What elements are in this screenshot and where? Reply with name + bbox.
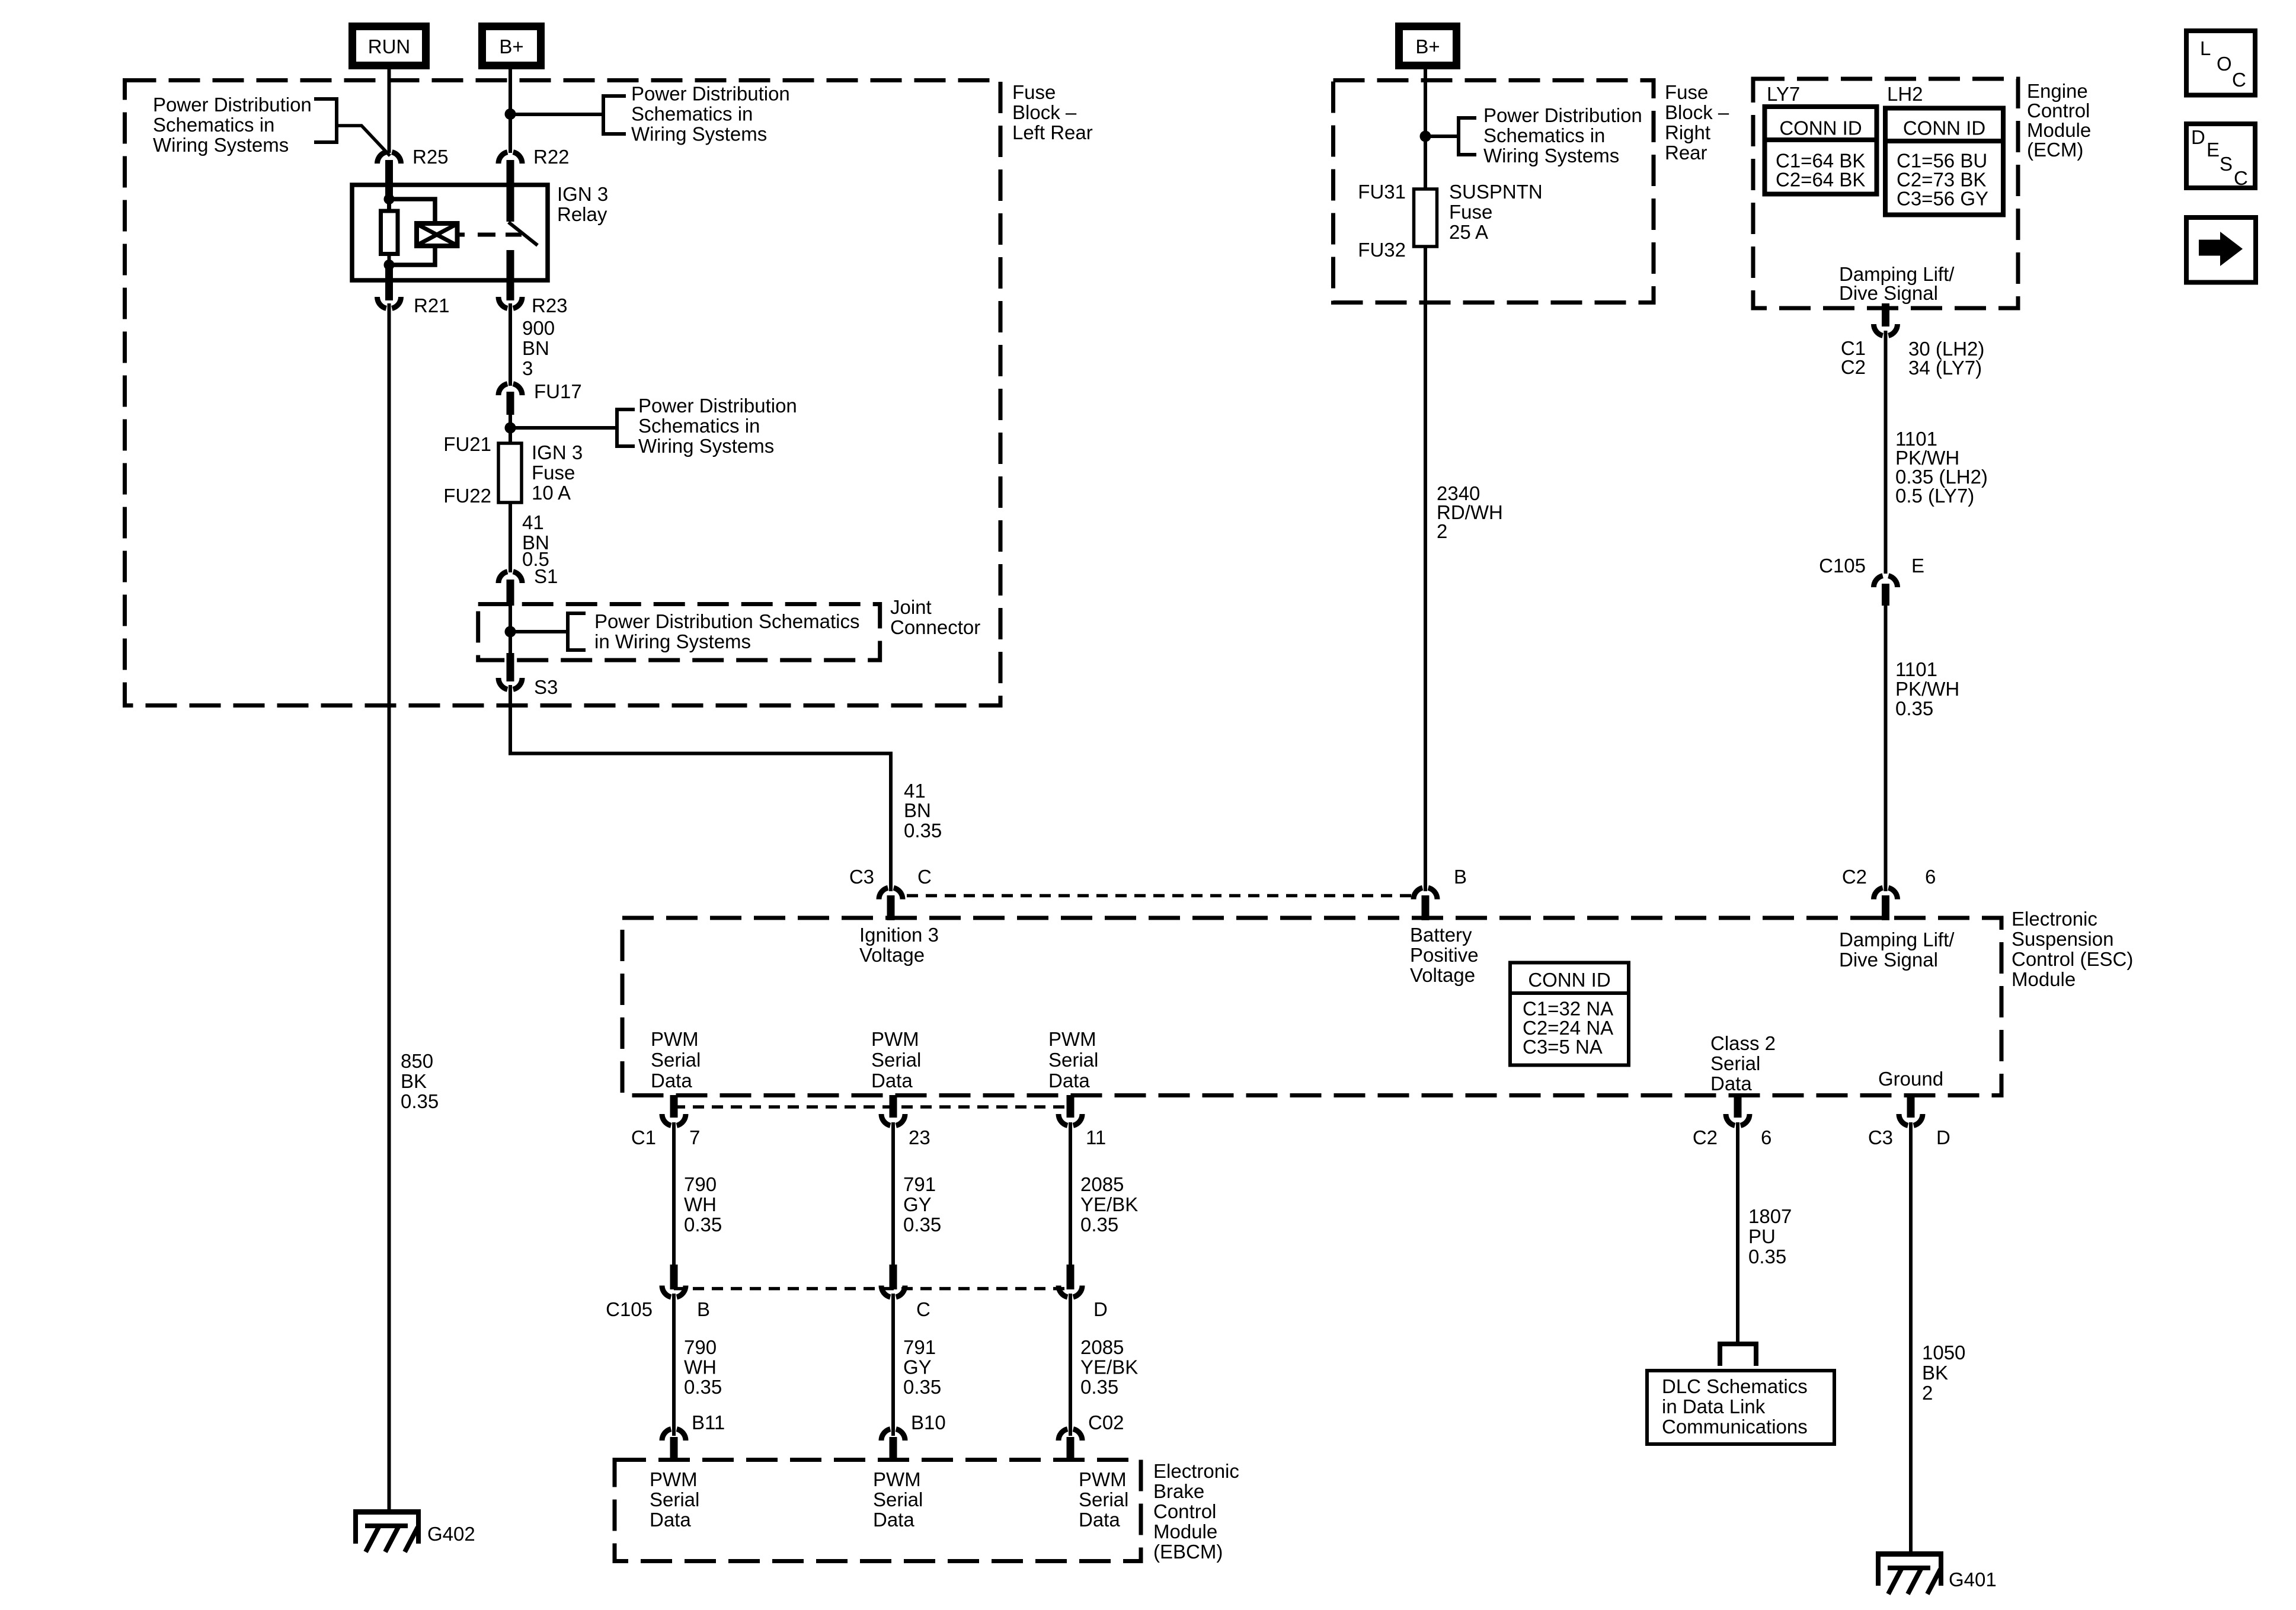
svg-text:B+: B+ <box>1415 36 1440 57</box>
svg-text:1050: 1050 <box>1922 1342 1965 1363</box>
svg-text:25 A: 25 A <box>1449 221 1488 243</box>
wire label 1807 PU 0.35 <box>1748 1205 1792 1267</box>
fuse block - right rear dashed box <box>1334 81 1654 303</box>
svg-text:E: E <box>2207 139 2220 161</box>
terminal RUN <box>353 27 426 66</box>
svg-text:Module: Module <box>2027 119 2091 141</box>
label IGN 3 Fuse 10 A <box>532 441 583 504</box>
connector C105 E <box>1819 555 1924 587</box>
svg-text:Relay: Relay <box>557 203 607 225</box>
connector R25 <box>378 146 449 168</box>
svg-text:YE/BK: YE/BK <box>1080 1193 1138 1215</box>
svg-text:791: 791 <box>903 1173 936 1195</box>
label SUSPNTN Fuse 25 A <box>1449 181 1543 243</box>
svg-text:Battery: Battery <box>1410 924 1472 946</box>
relay IGN 3 box <box>352 185 548 280</box>
svg-text:C2: C2 <box>1693 1126 1718 1148</box>
svg-text:Communications: Communications <box>1662 1416 1808 1438</box>
wire junction to bracket FU17 <box>510 426 617 430</box>
svg-text:0.35: 0.35 <box>1080 1214 1118 1235</box>
pointer text power distribution FU17 <box>638 395 797 457</box>
svg-text:PWM: PWM <box>650 1468 698 1490</box>
svg-text:Voltage: Voltage <box>859 944 925 966</box>
label Ignition 3 Voltage <box>859 924 939 966</box>
svg-text:2: 2 <box>1437 520 1447 542</box>
svg-text:C3: C3 <box>849 866 874 888</box>
svg-text:Serial: Serial <box>1079 1489 1128 1510</box>
svg-text:PU: PU <box>1748 1225 1776 1247</box>
svg-text:FU32: FU32 <box>1358 239 1406 261</box>
svg-text:B10: B10 <box>911 1411 946 1433</box>
connector R22 <box>498 146 570 168</box>
wire label 41 BN 0.35 <box>904 780 942 841</box>
svg-text:BK: BK <box>1922 1362 1948 1384</box>
svg-text:Voltage: Voltage <box>1410 964 1475 986</box>
wire R21 to G402 <box>388 303 391 1512</box>
stub ECM damping output <box>1882 303 1889 327</box>
svg-text:B: B <box>697 1298 710 1320</box>
svg-text:0.35: 0.35 <box>684 1376 722 1398</box>
svg-text:0.35: 0.35 <box>1080 1376 1118 1398</box>
svg-text:Wiring Systems: Wiring Systems <box>153 134 289 156</box>
pointer diagonal to R25 <box>338 126 390 156</box>
wire label 850 BK 0.35 <box>401 1050 439 1112</box>
svg-text:S: S <box>2220 153 2233 175</box>
svg-text:in Wiring Systems: in Wiring Systems <box>594 630 751 652</box>
ESC label Class 2 Serial Data <box>1710 1032 1776 1094</box>
ESC module dashed box <box>622 918 2001 1096</box>
dotted line C105 row <box>674 1287 1070 1291</box>
node FU17 junction <box>505 422 516 434</box>
svg-text:Suspension: Suspension <box>2012 928 2113 950</box>
svg-text:Rear: Rear <box>1665 142 1707 164</box>
wire resistor to bottom node <box>388 254 391 266</box>
svg-text:PWM: PWM <box>1079 1468 1127 1490</box>
node B+ right junction <box>1420 131 1431 142</box>
svg-text:Serial: Serial <box>651 1049 701 1071</box>
svg-text:C02: C02 <box>1088 1411 1124 1433</box>
svg-text:Module: Module <box>1153 1521 1217 1542</box>
svg-text:Schematics in: Schematics in <box>1483 124 1605 146</box>
DLC schematics box <box>1647 1371 1834 1444</box>
svg-text:Serial: Serial <box>1048 1049 1098 1071</box>
svg-text:Electronic: Electronic <box>1153 1460 1239 1482</box>
connector R21 <box>378 295 450 316</box>
svg-text:Ignition 3: Ignition 3 <box>859 924 939 946</box>
LOC legend box <box>2186 31 2255 95</box>
ECM label <box>2027 80 2091 161</box>
svg-text:Data: Data <box>1048 1070 1090 1092</box>
svg-text:3: 3 <box>522 357 533 379</box>
svg-text:0.35: 0.35 <box>401 1090 439 1112</box>
stub R25 into relay <box>385 160 393 200</box>
wire junction to bracket joint <box>510 630 566 633</box>
svg-text:0.35: 0.35 <box>904 820 942 841</box>
EBCM label PWM serial data col1 <box>650 1468 699 1531</box>
svg-text:Wiring Systems: Wiring Systems <box>638 435 774 457</box>
wire ESC col2 to C105 <box>891 1122 895 1265</box>
EBCM label PWM serial data col3 <box>1079 1468 1128 1531</box>
wire RUN to R25 <box>388 69 391 153</box>
stub ESC damping <box>1882 895 1889 920</box>
svg-text:Schematics in: Schematics in <box>631 103 753 125</box>
relay coil bottom node <box>384 260 395 270</box>
svg-text:PK/WH: PK/WH <box>1895 678 1959 700</box>
ground G402 <box>353 1509 475 1552</box>
relay resistor <box>381 211 398 254</box>
svg-text:0.35: 0.35 <box>1748 1246 1786 1267</box>
pointer text power distribution B+ left <box>631 83 790 145</box>
DESC legend box <box>2186 124 2255 189</box>
svg-text:C3: C3 <box>1868 1126 1893 1148</box>
svg-text:C: C <box>916 1298 930 1320</box>
svg-text:FU17: FU17 <box>534 380 582 402</box>
svg-text:B11: B11 <box>692 1411 725 1433</box>
svg-text:7: 7 <box>689 1126 700 1148</box>
svg-text:Power Distribution: Power Distribution <box>1483 104 1642 126</box>
svg-text:S3: S3 <box>534 676 558 698</box>
svg-text:(EBCM): (EBCM) <box>1153 1541 1223 1563</box>
wire junction to bracket right B+ <box>1425 135 1457 138</box>
svg-text:D: D <box>1936 1126 1950 1148</box>
connector C105 pin D <box>1059 1265 1108 1320</box>
pointer bracket right B+ <box>1459 118 1476 155</box>
svg-text:Damping Lift/: Damping Lift/ <box>1839 929 1955 950</box>
svg-text:FU21: FU21 <box>443 433 491 455</box>
wire B+ left to R22 <box>509 69 512 153</box>
ESC CONN ID table <box>1510 963 1629 1065</box>
svg-text:G401: G401 <box>1949 1569 1997 1590</box>
svg-text:Fuse: Fuse <box>1449 201 1492 223</box>
svg-text:C3=56 GY: C3=56 GY <box>1897 188 1988 210</box>
connector S1 <box>498 565 558 587</box>
wire ECM to C105 E <box>1884 331 1888 574</box>
wire label 1101 PK/WH 0.35 (LH2) 0.5 (LY7) <box>1895 428 1988 507</box>
terminal B+ left <box>482 27 541 66</box>
stub S3 <box>507 653 514 681</box>
svg-text:BN: BN <box>522 337 549 359</box>
label FU31 <box>1358 181 1406 203</box>
wire label 2340 RD/WH 2 <box>1437 482 1503 542</box>
svg-text:LH2: LH2 <box>1887 83 1923 105</box>
connector R23 <box>498 295 568 316</box>
label FU22 <box>443 485 491 507</box>
wire FU17 to fuse IGN3 <box>509 415 512 444</box>
node B+ left junction <box>505 108 516 120</box>
wire label 41 BN 0.5 <box>522 511 549 570</box>
LY7 connector table <box>1765 83 1877 194</box>
joint connector dashed box <box>478 604 880 661</box>
ECM dashed box <box>1753 79 2018 308</box>
svg-text:850: 850 <box>401 1050 433 1072</box>
svg-text:C: C <box>2234 167 2248 189</box>
svg-text:Fuse: Fuse <box>532 462 575 484</box>
stub FU17 <box>507 392 514 415</box>
svg-text:G402: G402 <box>427 1523 475 1545</box>
connector C105 pin C <box>881 1265 930 1320</box>
wire label 790 WH 0.35 lower <box>684 1336 722 1398</box>
svg-text:C: C <box>917 866 932 888</box>
pointer bracket top-left <box>314 99 337 142</box>
label Damping Lift Dive Signal ESC <box>1839 929 1955 971</box>
stub B into ESC <box>1422 895 1430 920</box>
svg-text:0.5 (LY7): 0.5 (LY7) <box>1895 485 1974 507</box>
svg-text:Power Distribution Schematics: Power Distribution Schematics <box>594 610 860 632</box>
wire label 900 BN 3 <box>522 317 555 379</box>
svg-text:Dive Signal: Dive Signal <box>1839 282 1938 304</box>
svg-text:Wiring Systems: Wiring Systems <box>1483 145 1619 167</box>
wire ground to G401 <box>1909 1122 1913 1554</box>
relay switch upper contact <box>507 160 514 222</box>
fuse block - left rear dashed box <box>125 81 1001 706</box>
svg-text:C105: C105 <box>606 1298 653 1320</box>
svg-text:791: 791 <box>903 1336 936 1358</box>
svg-text:Block –: Block – <box>1012 101 1077 123</box>
connector EBCM pin C02 <box>1059 1411 1124 1462</box>
wire ESC col3 to C105 <box>1069 1122 1072 1265</box>
svg-text:Ground: Ground <box>1878 1068 1943 1090</box>
svg-text:BK: BK <box>401 1070 427 1092</box>
svg-text:Serial: Serial <box>1710 1052 1760 1074</box>
terminator to DLC <box>1720 1344 1756 1366</box>
svg-text:LY7: LY7 <box>1767 83 1800 105</box>
connector FU17 <box>498 380 582 402</box>
ESC label Ground <box>1878 1068 1943 1090</box>
svg-text:23: 23 <box>909 1126 930 1148</box>
wire B+ right leg <box>1424 69 1427 891</box>
ground G401 <box>1876 1551 1997 1594</box>
svg-text:PWM: PWM <box>1048 1028 1096 1050</box>
svg-text:CONN ID: CONN ID <box>1528 969 1610 991</box>
wire class2 to DLC <box>1736 1122 1739 1343</box>
svg-text:S1: S1 <box>534 565 558 587</box>
svg-text:2085: 2085 <box>1080 1173 1124 1195</box>
svg-text:E: E <box>1911 555 1924 577</box>
relay coil top node <box>384 194 395 204</box>
wire label 2085 YE/BK 0.35 upper <box>1080 1173 1138 1235</box>
svg-text:0.35: 0.35 <box>684 1214 722 1235</box>
wire C105 C to B10 <box>891 1294 895 1436</box>
connector EBCM pin B10 <box>881 1411 946 1462</box>
relay coil dash link <box>457 233 522 237</box>
wire fuse to S1 <box>509 502 512 572</box>
svg-text:Fuse: Fuse <box>1012 81 1056 103</box>
dotted line ESC bottom row <box>674 1105 1070 1109</box>
wire C105 B to B11 <box>672 1294 676 1436</box>
svg-text:34 (LY7): 34 (LY7) <box>1908 357 1982 379</box>
ESC label PWM serial data col3 <box>1048 1028 1098 1092</box>
pointer bracket joint <box>568 613 586 650</box>
relay coil symbol box-X <box>417 223 458 246</box>
svg-text:Connector: Connector <box>890 616 980 638</box>
pointer bracket FU17 <box>617 409 635 446</box>
wire ESC col1 to C105 <box>672 1122 676 1265</box>
svg-text:Electronic: Electronic <box>2012 908 2097 930</box>
arrow legend box <box>2186 217 2256 283</box>
svg-text:CONN ID: CONN ID <box>1779 117 1862 139</box>
svg-text:PWM: PWM <box>873 1468 921 1490</box>
connector B battery positive <box>1414 866 1467 900</box>
relay label IGN 3 <box>557 183 608 225</box>
wire label 1050 BK 2 <box>1922 1342 1965 1404</box>
connector ECM damping C1 C2 <box>1841 324 1985 379</box>
svg-text:Brake: Brake <box>1153 1480 1204 1502</box>
pointer bracket B+ left <box>603 96 626 134</box>
svg-text:2: 2 <box>1922 1382 1933 1404</box>
svg-text:C105: C105 <box>1819 555 1866 577</box>
svg-text:Data: Data <box>651 1070 692 1092</box>
svg-text:0.35: 0.35 <box>903 1214 941 1235</box>
svg-text:Data: Data <box>650 1509 691 1531</box>
svg-text:R22: R22 <box>533 146 570 168</box>
svg-text:Serial: Serial <box>871 1049 921 1071</box>
ESC label PWM serial data col1 <box>651 1028 701 1092</box>
fuse block - left rear label <box>1012 81 1093 143</box>
svg-text:11: 11 <box>1086 1126 1106 1148</box>
svg-text:in Data Link: in Data Link <box>1662 1395 1766 1417</box>
label Damping Lift Dive Signal ECM <box>1839 263 1955 304</box>
svg-text:C2: C2 <box>1841 356 1866 378</box>
relay switch lower contact <box>507 250 514 300</box>
pointer text power distribution right B+ <box>1483 104 1642 167</box>
svg-text:Power Distribution: Power Distribution <box>153 94 312 116</box>
svg-text:D: D <box>1093 1298 1108 1320</box>
svg-text:0.35: 0.35 <box>903 1376 941 1398</box>
svg-text:B+: B+ <box>499 36 523 57</box>
svg-text:6: 6 <box>1925 866 1936 888</box>
svg-text:FU31: FU31 <box>1358 181 1406 203</box>
svg-text:DLC Schematics: DLC Schematics <box>1662 1375 1808 1397</box>
svg-text:GY: GY <box>903 1193 932 1215</box>
stub S1 <box>507 580 514 606</box>
svg-text:Joint: Joint <box>890 596 932 618</box>
fuse block - right rear label <box>1665 81 1729 164</box>
connector ESC pin 23 <box>881 1095 930 1148</box>
svg-text:PWM: PWM <box>651 1028 699 1050</box>
svg-text:Control: Control <box>2027 100 2090 121</box>
svg-text:Power Distribution: Power Distribution <box>631 83 790 105</box>
label FU21 <box>443 433 491 455</box>
svg-text:R23: R23 <box>532 295 568 316</box>
svg-text:Block –: Block – <box>1665 101 1729 123</box>
svg-text:41: 41 <box>904 780 926 802</box>
svg-text:C1: C1 <box>631 1126 656 1148</box>
wire C105 D to C02 <box>1069 1294 1072 1436</box>
EBCM label <box>1153 1460 1239 1563</box>
svg-text:WH: WH <box>684 1193 717 1215</box>
svg-text:Serial: Serial <box>650 1489 699 1510</box>
svg-text:Serial: Serial <box>873 1489 923 1510</box>
svg-text:Data: Data <box>1710 1073 1752 1094</box>
svg-text:C: C <box>2232 69 2246 91</box>
wire C105 E to ESC damping <box>1884 606 1888 891</box>
svg-text:R21: R21 <box>414 295 450 316</box>
svg-text:Control (ESC): Control (ESC) <box>2012 948 2133 970</box>
dotted line C to B <box>907 894 1412 898</box>
svg-text:(ECM): (ECM) <box>2027 139 2083 161</box>
relay coil loop wire <box>389 199 436 265</box>
svg-text:Left Rear: Left Rear <box>1012 121 1093 143</box>
wire S3 elbow to ESC C3 <box>510 685 891 891</box>
connector C3-C ignition voltage <box>849 866 932 900</box>
pointer text power distribution top-left <box>153 94 312 156</box>
svg-text:1807: 1807 <box>1748 1205 1792 1227</box>
svg-text:Fuse: Fuse <box>1665 81 1708 103</box>
svg-text:790: 790 <box>684 1173 717 1195</box>
svg-text:Schematics in: Schematics in <box>153 114 274 136</box>
wire label 791 GY 0.35 upper <box>903 1173 941 1235</box>
svg-text:Wiring Systems: Wiring Systems <box>631 123 767 145</box>
svg-text:IGN 3: IGN 3 <box>557 183 608 205</box>
wire label 1101 PK/WH 0.35 <box>1895 658 1959 719</box>
wire label 2085 YE/BK 0.35 lower <box>1080 1336 1138 1398</box>
wire label 790 WH 0.35 upper <box>684 1173 722 1235</box>
svg-text:Data: Data <box>1079 1509 1120 1531</box>
joint connector label <box>890 596 980 638</box>
svg-text:900: 900 <box>522 317 555 339</box>
svg-text:Control: Control <box>1153 1500 1216 1522</box>
svg-text:C2: C2 <box>1842 866 1867 888</box>
svg-text:Dive Signal: Dive Signal <box>1839 949 1938 971</box>
fuse SUSPNTN 25A <box>1414 189 1437 247</box>
svg-text:790: 790 <box>684 1336 717 1358</box>
label Battery Positive Voltage <box>1410 924 1479 986</box>
svg-text:1101: 1101 <box>1895 658 1937 680</box>
node joint connector junction <box>505 626 516 638</box>
wire node to resistor <box>387 199 391 212</box>
svg-text:CONN ID: CONN ID <box>1903 117 1985 139</box>
svg-text:FU22: FU22 <box>443 485 491 507</box>
svg-text:41: 41 <box>522 511 544 533</box>
stub C105 E <box>1882 584 1889 606</box>
svg-text:10 A: 10 A <box>532 482 571 504</box>
svg-text:Data: Data <box>873 1509 914 1531</box>
terminal B+ right <box>1399 27 1457 66</box>
label FU32 <box>1358 239 1406 261</box>
connector ESC pin 7 <box>631 1095 701 1148</box>
connector ESC pin 11 <box>1059 1095 1106 1148</box>
relay switch blade <box>509 222 538 245</box>
wire junction to bracket <box>510 113 602 116</box>
svg-text:Engine: Engine <box>2027 80 2088 102</box>
wire S1 to joint node <box>509 606 512 653</box>
svg-text:Right: Right <box>1665 121 1710 143</box>
svg-text:6: 6 <box>1761 1126 1771 1148</box>
svg-text:C3=5 NA: C3=5 NA <box>1523 1036 1603 1058</box>
svg-text:RUN: RUN <box>368 36 411 57</box>
stub R25-R21 leg through relay bottom <box>385 263 393 300</box>
svg-text:IGN 3: IGN 3 <box>532 441 583 463</box>
svg-text:R25: R25 <box>412 146 449 168</box>
svg-text:Module: Module <box>2012 968 2076 990</box>
svg-text:Positive: Positive <box>1410 944 1479 966</box>
svg-text:B: B <box>1454 866 1467 888</box>
svg-text:2085: 2085 <box>1080 1336 1124 1358</box>
svg-text:D: D <box>2191 126 2205 148</box>
svg-text:Data: Data <box>871 1070 913 1092</box>
connector ESC class2 C2 6 <box>1693 1095 1772 1148</box>
svg-text:O: O <box>2217 53 2232 75</box>
connector ESC ground C3 D <box>1868 1095 1950 1148</box>
svg-text:Class 2: Class 2 <box>1710 1032 1776 1054</box>
svg-text:YE/BK: YE/BK <box>1080 1356 1138 1378</box>
svg-text:GY: GY <box>903 1356 932 1378</box>
pointer text power distribution joint <box>594 610 860 652</box>
connector S3 <box>498 676 558 698</box>
stub C3 into ESC <box>887 895 895 920</box>
svg-text:WH: WH <box>684 1356 717 1378</box>
svg-text:PWM: PWM <box>871 1028 919 1050</box>
